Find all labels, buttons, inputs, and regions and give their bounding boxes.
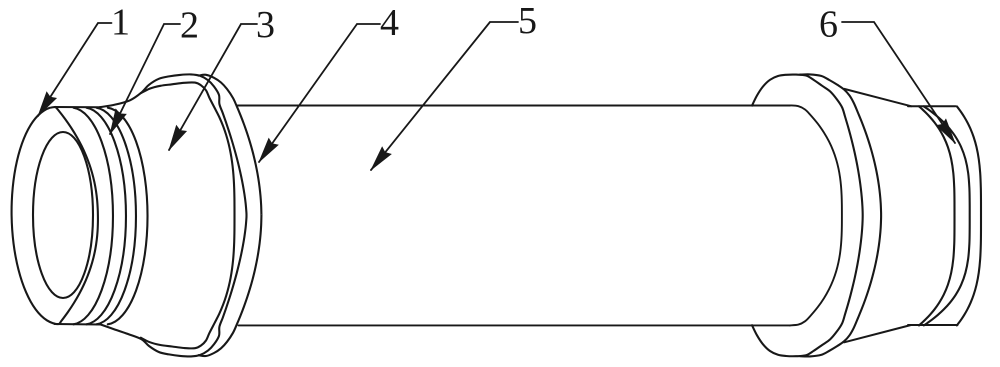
flange front rim silhouette (4) bbox=[100, 74, 247, 356]
neck bottom silhouette bbox=[55, 323, 102, 326]
groove ring 1 (2) bbox=[74, 108, 113, 325]
groove ring 3 (2) bbox=[97, 108, 136, 325]
leader line 1 bbox=[38, 23, 112, 116]
svg-text:3: 3 bbox=[256, 4, 275, 46]
leader line 5 bbox=[371, 22, 518, 170]
groove ring 2 (2) bbox=[87, 108, 126, 325]
end ring 1 (6) bbox=[919, 106, 954, 325]
leader line 4 bbox=[259, 24, 380, 162]
svg-text:2: 2 bbox=[180, 5, 199, 47]
cylinder top line bbox=[237, 105, 790, 107]
right end top silhouette bbox=[908, 105, 956, 107]
right cone bottom silhouette bbox=[844, 325, 911, 342]
end ring 3 (6) bbox=[957, 106, 981, 325]
cone small-end ring bbox=[108, 108, 148, 325]
svg-text:6: 6 bbox=[819, 4, 838, 46]
svg-text:1: 1 bbox=[111, 2, 130, 44]
leader line 6 bbox=[842, 22, 955, 143]
svg-text:5: 5 bbox=[518, 0, 537, 42]
left end face outer rim (1) bbox=[12, 107, 98, 324]
right cone top silhouette bbox=[844, 89, 911, 106]
leader line 2 bbox=[110, 24, 180, 134]
flange back rim arc bbox=[199, 75, 262, 356]
leader line 3 bbox=[169, 24, 257, 150]
end ring 2 (6) bbox=[924, 106, 970, 325]
right flange back rim silhouette bbox=[800, 74, 881, 356]
svg-text:4: 4 bbox=[380, 2, 399, 44]
cylinder bottom line bbox=[239, 324, 790, 326]
right flange front rim silhouette bbox=[752, 75, 863, 357]
left end bore inner ellipse bbox=[33, 132, 93, 298]
right end bottom silhouette bbox=[908, 324, 958, 326]
neck top silhouette bbox=[55, 106, 101, 108]
cylinder end junction corner bbox=[790, 105, 842, 325]
flange inner junction curve bbox=[141, 82, 235, 348]
